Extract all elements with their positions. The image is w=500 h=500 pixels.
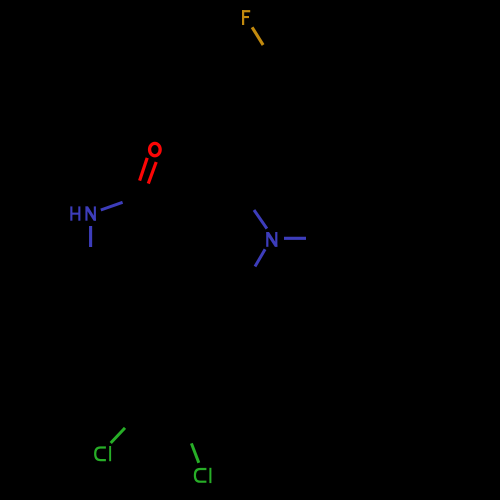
atom label Cl (chlorine 2) : l glyph <box>209 468 211 483</box>
bond N-C(=O) from lactam NH (N half, blue) <box>101 202 123 210</box>
bond C-F (F half, goldenrod) <box>252 27 263 45</box>
atom label O (carbonyl oxygen) <box>150 143 161 155</box>
double bond C=O, right line (O half, red) <box>148 162 156 184</box>
atom label Cl (chlorine 1) : C glyph <box>95 448 106 461</box>
bond N-CH2 to the right (N half, blue) <box>284 237 306 240</box>
bond N-CH2 going down from lactam NH (N half, blue) <box>89 226 92 247</box>
bond N-CH2 down-left (N half, blue) <box>255 249 265 266</box>
atom label Cl (chlorine 2) : C glyph <box>195 469 207 482</box>
bond N-CH2 up-left (N half, blue) <box>254 210 267 229</box>
atom label HN : N glyph <box>85 206 96 220</box>
atom label N (ring nitrogen) <box>266 232 277 247</box>
double bond C=O, left line (O half, red) <box>140 158 148 181</box>
atom label Cl (chlorine 1) : l glyph <box>109 446 111 461</box>
bond C-Cl for chlorine 2 (Cl half, green) <box>191 443 198 462</box>
atom label F (fluorine) <box>242 10 250 25</box>
bond C-Cl for chlorine 1 (Cl half, green) <box>111 428 125 443</box>
atom label HN (lactam nitrogen) : H glyph <box>70 206 80 220</box>
